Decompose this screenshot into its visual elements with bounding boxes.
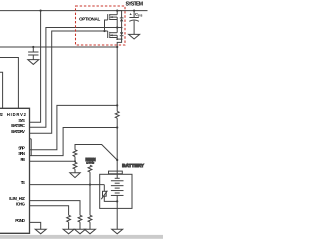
node junction FB tap	[74, 160, 76, 162]
node junction second line joins battery feed	[116, 46, 118, 48]
transistor Q2 channel bar	[109, 32, 111, 34]
capacitor C1	[32, 47, 34, 52]
transistor Q2 drain stub	[110, 32, 118, 34]
resistor RICHG	[67, 215, 71, 229]
resistor FB divider top	[73, 147, 77, 162]
svg-text:TS: TS	[21, 180, 25, 185]
node junction SRP at battery line	[116, 104, 118, 106]
svg-text:OPTIONAL: OPTIONAL	[79, 17, 100, 22]
svg-text:100k: 100k	[87, 163, 95, 165]
svg-text:BATSRC: BATSRC	[11, 123, 25, 128]
node junction bottom bar right	[121, 38, 123, 40]
svg-text:HIDRV2: HIDRV2	[7, 112, 27, 117]
footer grey band	[0, 235, 163, 239]
resistor TS low side	[88, 215, 92, 229]
node junction on rail at system cap	[133, 10, 135, 12]
battery box	[100, 174, 132, 208]
optional red dashed box	[76, 6, 126, 45]
svg-text:SRP: SRP	[18, 145, 25, 150]
wire Q1 drain to rail	[116, 11, 118, 15]
transistor Q2 gate bar	[107, 31, 109, 38]
wire Q1 source down to Q2 drain	[116, 17, 118, 33]
resistor RSR battery sense	[115, 111, 119, 118]
wire Q2 source to bottom node	[116, 35, 118, 39]
wire BATSRC pin to FET common source	[30, 28, 122, 128]
diode D2 body diode of Q2	[121, 28, 123, 33]
transistor Q1 drain stub	[110, 14, 118, 16]
thermistor in battery pack	[103, 185, 105, 192]
wire FET bottom node bar	[117, 38, 121, 40]
wire PGND pin to ground	[30, 222, 41, 229]
wire ICHG pin to resistor	[30, 206, 69, 216]
node junction REGN resistor on TS line	[89, 184, 91, 186]
node junction FB tap on battery line	[116, 159, 118, 161]
battery connector	[109, 171, 123, 174]
ground under CSYS	[129, 34, 140, 39]
node junction on rail at FET drain	[116, 10, 118, 12]
svg-text:REGN: REGN	[86, 157, 96, 162]
ground under RICHG	[63, 229, 74, 234]
node junction battery minus	[116, 200, 118, 202]
ground under RILIM	[75, 229, 86, 234]
battery cell stack	[115, 177, 120, 179]
wire VBAT pin stub	[30, 138, 32, 140]
capacitor CSYS polarized	[133, 11, 135, 18]
svg-text:BATTERY: BATTERY	[122, 163, 145, 168]
wire ILIM_HIZ pin to resistor	[30, 201, 81, 216]
transistor Q1 channel bar	[109, 14, 111, 16]
wire FB tap from divider to battery line	[75, 145, 117, 161]
wire battery feed through cells	[116, 195, 118, 229]
resistor FB divider bottom	[73, 162, 77, 173]
wire SRP pin to sense resistor top	[30, 105, 118, 149]
transistor Q1 gate bar	[107, 14, 109, 20]
node junction bottom bar left	[116, 38, 118, 40]
svg-text:BATDRV: BATDRV	[11, 129, 25, 134]
wire battery feed below RSR	[116, 118, 118, 178]
svg-text:PGND: PGND	[15, 218, 25, 223]
diode D1 body diode of Q1	[117, 11, 121, 18]
transistor Q2 body stub with arrow	[110, 34, 118, 36]
ground PGND	[35, 229, 46, 234]
svg-text:FB: FB	[21, 157, 25, 162]
node junction BATSRC at diode column	[121, 27, 123, 29]
node junction on rail at SYS riser	[40, 10, 42, 12]
wire TS lower resistor	[89, 185, 91, 216]
resistor RILIM	[78, 215, 82, 229]
wire vertical VBAT tie to SRN	[30, 139, 32, 156]
transistor Q1 body stub with arrow	[110, 16, 118, 18]
transistor Q2 source stub	[110, 37, 118, 39]
svg-text:SRN: SRN	[18, 151, 25, 156]
wire FET output jog to battery line	[117, 39, 121, 111]
wire TS pin line	[30, 184, 105, 186]
wire BATDRV pin to FET gates	[30, 31, 108, 133]
wire gate riser to Q1 gate	[105, 20, 108, 31]
svg-text:SYSTEM: SYSTEM	[126, 2, 144, 8]
wire SW2 from left edge	[0, 72, 3, 108]
node junction BATDRV gate branch	[103, 30, 105, 32]
svg-text:ICHG: ICHG	[16, 201, 25, 206]
transistor Q1 source stub	[110, 19, 118, 21]
node junction on second line at cap C1	[32, 46, 34, 48]
wire SRN pin to sense resistor bottom	[30, 128, 118, 156]
resistor REGN pullup	[88, 165, 92, 184]
ground under TS resistor	[85, 229, 96, 234]
IC U1 charger box	[0, 108, 30, 233]
wire FB pin to divider tap	[30, 160, 76, 162]
wire SYS pin to rail	[30, 11, 41, 123]
node junction BATSRC at source column	[116, 26, 118, 28]
ground under battery	[112, 229, 123, 234]
wire HIDRV2 from left edge	[0, 58, 18, 109]
wire thermistor to battery minus	[104, 196, 117, 201]
wire system top rail	[0, 10, 148, 12]
ground under FB divider	[70, 173, 80, 178]
node junction SRN at battery line	[116, 126, 118, 128]
wire second system line	[0, 46, 117, 48]
ground under C1	[28, 60, 39, 65]
